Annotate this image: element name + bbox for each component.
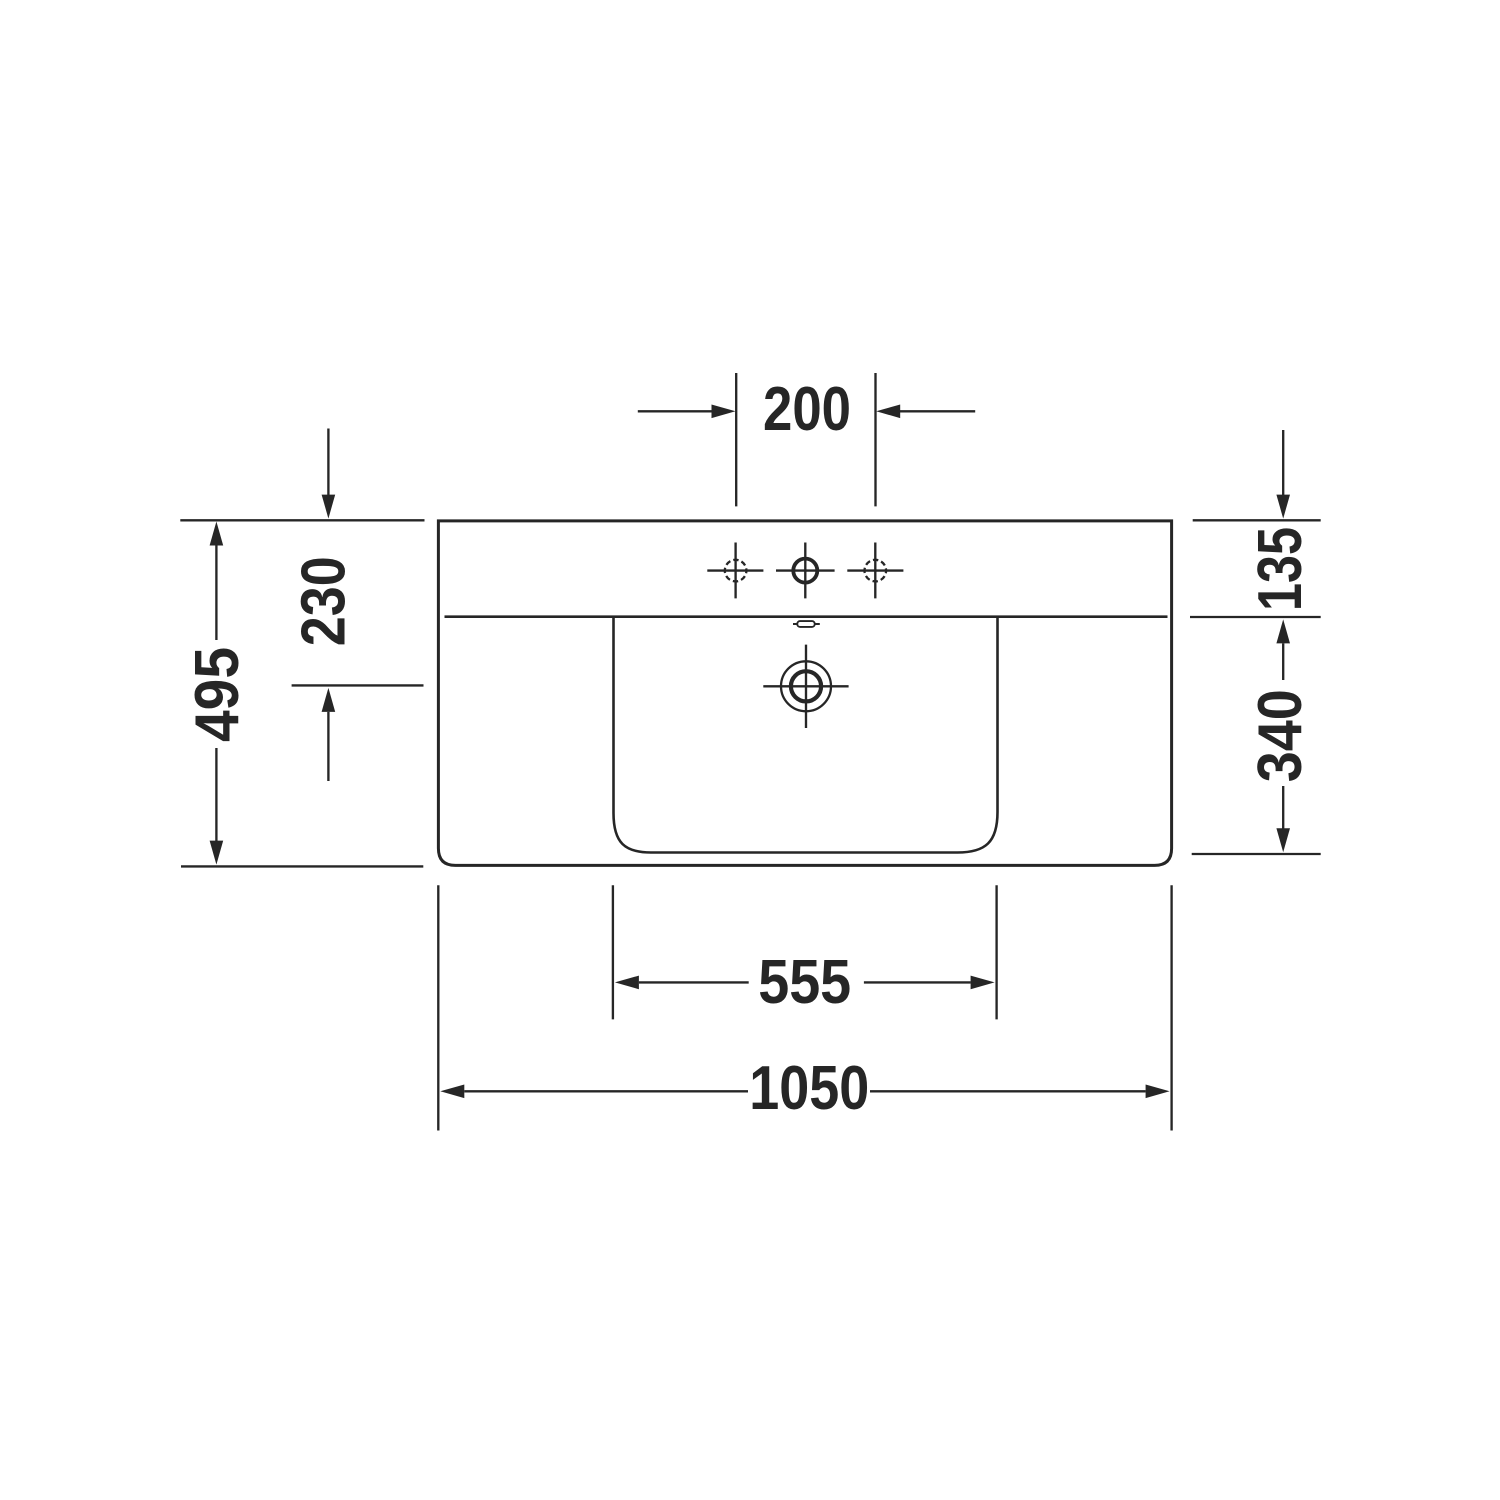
dimension 1050: left extension line	[437, 885, 439, 1130]
dimension 230: bottom extension line	[292, 684, 424, 686]
left tap hole (dashed circle)	[725, 560, 747, 582]
dimension 135: middle extension line	[1190, 616, 1321, 618]
right tap hole (dashed circle)	[865, 560, 887, 582]
dimension 340: top arrow	[1276, 619, 1290, 643]
dimension 230: top arrow	[327, 429, 329, 496]
overflow slot	[797, 621, 814, 627]
overflow slot centerline	[793, 623, 820, 625]
inner basin outline	[614, 616, 998, 852]
dimension 495: top extension line	[180, 519, 424, 521]
svg-text:230: 230	[288, 556, 358, 646]
dimension 495: bottom extension line	[181, 865, 423, 867]
dimension 555: right arrow	[864, 981, 971, 983]
svg-text:340: 340	[1245, 689, 1315, 782]
dimension 135: top arrow	[1282, 430, 1284, 495]
svg-text:555: 555	[758, 947, 851, 1017]
right tap hole crosshair	[847, 543, 903, 599]
dimension 1050: right extension line	[1170, 885, 1172, 1130]
dimension 200: right extension line	[874, 373, 876, 506]
svg-text:135: 135	[1245, 527, 1315, 611]
centre tap hole	[793, 559, 817, 583]
svg-text:1050: 1050	[749, 1053, 869, 1123]
drain inner circle	[791, 671, 821, 701]
drain crosshair	[763, 645, 848, 728]
washbasin outer outline	[438, 521, 1171, 866]
left tap hole crosshair	[707, 543, 763, 599]
dimension 200: left extension line	[735, 373, 737, 506]
dimension 340: bottom arrow	[1282, 786, 1284, 829]
dimension 135: top extension line	[1193, 519, 1321, 521]
dimension 1050: left arrow	[440, 1085, 464, 1099]
svg-text:495: 495	[182, 647, 252, 742]
dimension 230: bottom arrow	[322, 688, 336, 712]
svg-text:200: 200	[763, 374, 851, 444]
dimension 555: left extension line	[612, 885, 614, 1019]
dimension 495: dimension line with arrows	[215, 545, 217, 841]
dimension 200: right arrow	[899, 410, 976, 412]
dimension 1050: right arrow	[870, 1090, 1146, 1092]
dimension 555: left arrow	[615, 976, 639, 990]
dimension 200: left arrow	[638, 410, 713, 412]
dimension 340: bottom extension line	[1192, 853, 1321, 855]
tap deck ledge line	[445, 615, 1168, 618]
centre tap hole crosshair	[776, 543, 835, 599]
drain outer circle	[781, 661, 831, 711]
dimension 555: right extension line	[995, 885, 997, 1019]
